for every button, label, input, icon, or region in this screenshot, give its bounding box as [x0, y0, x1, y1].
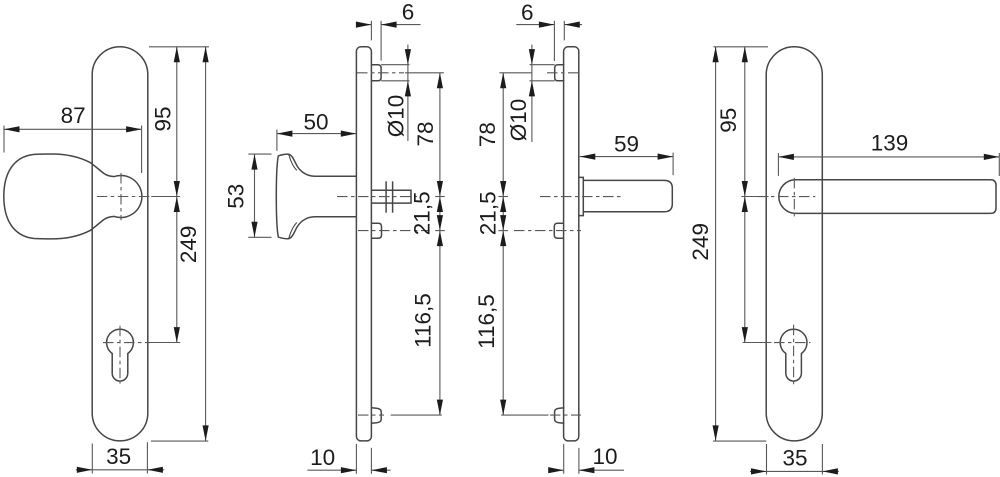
- figure 1 backplate (front view, 35x249 plate): [92, 47, 148, 441]
- figure 2 dimension 6 (boss projection): [370, 21, 372, 41]
- figure 1 dimension 35 (plate width): [91, 444, 93, 474]
- figure 2 dimension 50 (knob projection): [276, 130, 278, 151]
- figure 3 backplate (side view, 10mm thick): [564, 47, 579, 441]
- figure 1 extension line knob centre: [151, 196, 180, 198]
- svg-text:6: 6: [402, 0, 415, 25]
- figure 1 keyhole centre line horizontal: [103, 342, 150, 344]
- figure 3 top boss centre line: [547, 72, 581, 74]
- figure 3 dimension 59 (handle projection): [672, 153, 674, 176]
- svg-text:21,5: 21,5: [410, 191, 435, 235]
- figure 1 dimension 95 and cylinder distance line: [176, 47, 178, 343]
- figure 1 knob centre line vertical: [120, 173, 122, 220]
- figure 1 knob (front view, pear shape): [4, 154, 142, 239]
- figure 3 stub handle collar: [579, 177, 583, 215]
- figure 1 dimension 87 (knob width): [4, 128, 142, 130]
- figure 1 euro profile cylinder hole: [107, 329, 134, 381]
- figure 2 spindle flange lines: [385, 181, 387, 212]
- svg-text:249: 249: [176, 226, 201, 264]
- svg-text:50: 50: [303, 110, 328, 135]
- svg-text:95: 95: [151, 106, 176, 131]
- figure 2 chain dimension line 78 / 21,5 / 116,5: [405, 72, 444, 74]
- figure 3 bottom screw boss: [555, 408, 565, 423]
- svg-text:10: 10: [310, 445, 335, 470]
- figure 4 dimension 249 (plate length): [715, 47, 717, 441]
- figure 1 extension line keyhole centre: [149, 342, 181, 344]
- figure 2 support pin centre line: [358, 230, 429, 232]
- figure 4 keyhole centre line horizontal: [774, 342, 810, 344]
- figure 2 bottom boss centre line: [358, 414, 384, 416]
- figure 3 dimension 10 (plate thickness): [563, 444, 565, 474]
- figure 1 extension line top: [149, 46, 209, 48]
- svg-text:53: 53: [224, 184, 249, 209]
- svg-text:10: 10: [592, 444, 617, 469]
- svg-text:35: 35: [782, 446, 807, 471]
- figure 4 dimension 139 (lever length): [777, 153, 779, 176]
- svg-text:35: 35: [106, 444, 131, 469]
- svg-text:116,5: 116,5: [411, 293, 436, 348]
- figure 2 support pin: [372, 223, 382, 238]
- figure 2 dimension 10 (plate thickness): [355, 444, 357, 474]
- svg-text:Ø10: Ø10: [384, 95, 409, 138]
- svg-text:95: 95: [716, 108, 741, 133]
- figure 4 keyhole centre line vertical: [793, 325, 795, 385]
- figure 2 knob rim edge top: [289, 155, 297, 171]
- figure 4 backplate (front view, 35x249 plate): [766, 47, 822, 441]
- svg-text:78: 78: [413, 121, 438, 146]
- figure 3 bottom boss centre line: [550, 414, 581, 416]
- figure 4 euro profile cylinder hole: [780, 329, 807, 381]
- figure 4 lever pivot centre line horizontal: [757, 196, 815, 198]
- figure 2 spindle centre line: [337, 196, 417, 198]
- figure 3 handle centre line: [540, 196, 624, 198]
- figure 2 dimension diameter 10 (boss): [381, 64, 409, 66]
- figure 3 support pin: [554, 223, 564, 238]
- svg-text:Ø10: Ø10: [506, 99, 531, 142]
- svg-text:87: 87: [61, 103, 86, 128]
- figure 3 stub handle cylinder: [583, 180, 672, 211]
- svg-text:6: 6: [521, 0, 534, 25]
- figure 3 dimension 6 (boss projection): [553, 21, 555, 61]
- figure 3 chain dimension line 78 / 21,5 / 116,5: [499, 72, 532, 74]
- figure 4 extension line lever centre: [741, 196, 768, 198]
- figure 1 extension line bottom: [151, 440, 208, 442]
- svg-text:249: 249: [688, 223, 713, 261]
- figure 2 top boss centre line: [357, 72, 404, 74]
- figure 2 knob rim edge bottom: [289, 223, 297, 239]
- figure 3 dimension diameter 10 (boss): [530, 64, 555, 66]
- figure 3 support pin centre line: [514, 230, 581, 232]
- figure 4 dimension 95 and cylinder distance line: [744, 47, 746, 343]
- figure 4 extension line keyhole centre: [743, 342, 772, 344]
- figure 4 extension line top: [713, 46, 768, 48]
- figure 4 dimension 35 (plate width): [766, 444, 768, 475]
- svg-text:78: 78: [475, 122, 500, 147]
- figure 1 dimension 249 (plate length): [205, 47, 207, 441]
- figure 2 top screw boss: [372, 65, 382, 81]
- svg-text:59: 59: [614, 132, 639, 157]
- figure 2 knob (side profile): [276, 154, 356, 239]
- figure 4 lever handle (front view): [779, 180, 996, 214]
- svg-text:21,5: 21,5: [476, 191, 501, 235]
- figure 1 keyhole centre line vertical: [119, 326, 121, 384]
- figure 2 dimension 53 (knob diameter): [248, 153, 271, 155]
- figure 4 extension line bottom: [713, 440, 766, 442]
- figure 3 top screw boss: [555, 65, 565, 81]
- svg-text:116,5: 116,5: [474, 294, 499, 349]
- figure 2 backplate (side view, 10mm thick): [356, 47, 371, 441]
- figure 1 knob centre line horizontal: [97, 196, 159, 198]
- figure 4 lever pivot centre line vertical: [793, 178, 795, 217]
- svg-text:139: 139: [871, 131, 909, 156]
- figure 2 bottom screw boss: [372, 408, 382, 423]
- figure 2 spindle: [372, 190, 412, 203]
